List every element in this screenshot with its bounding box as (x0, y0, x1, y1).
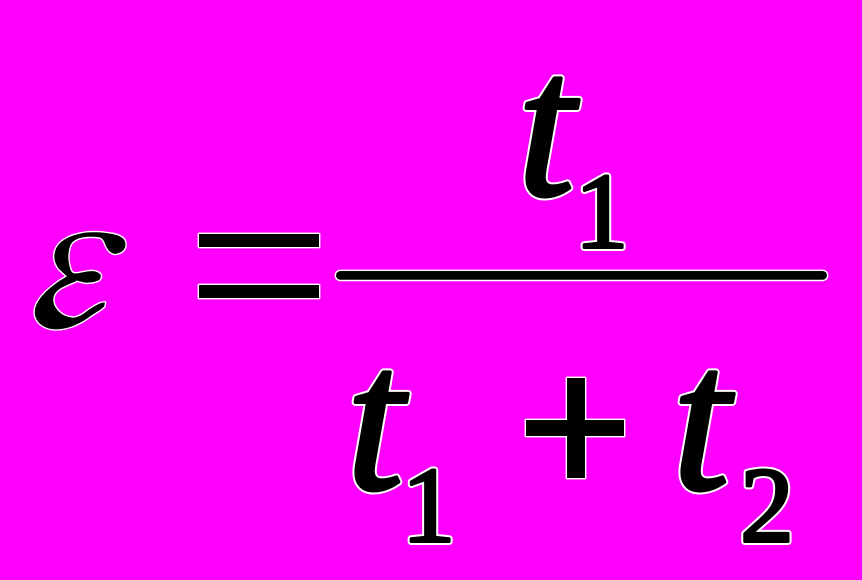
svg-text:t: t (346, 305, 408, 534)
svg-text:t: t (672, 305, 734, 534)
denominator subscript 2 (740, 447, 794, 566)
denominator subscript 1 (402, 447, 456, 566)
equals sign top bar (199, 234, 319, 247)
denominator second t (672, 305, 734, 534)
fraction bar (336, 271, 827, 280)
numerator t (517, 11, 579, 240)
denominator first t (346, 305, 408, 534)
svg-text:2: 2 (740, 447, 794, 566)
svg-text:t: t (517, 11, 579, 240)
svg-text:1: 1 (575, 153, 629, 272)
epsilon (left-hand symbol) (35, 232, 126, 329)
svg-text:1: 1 (402, 447, 456, 566)
equals sign bottom bar (199, 285, 319, 298)
numerator subscript 1 (575, 153, 629, 272)
plus sign (526, 378, 624, 478)
